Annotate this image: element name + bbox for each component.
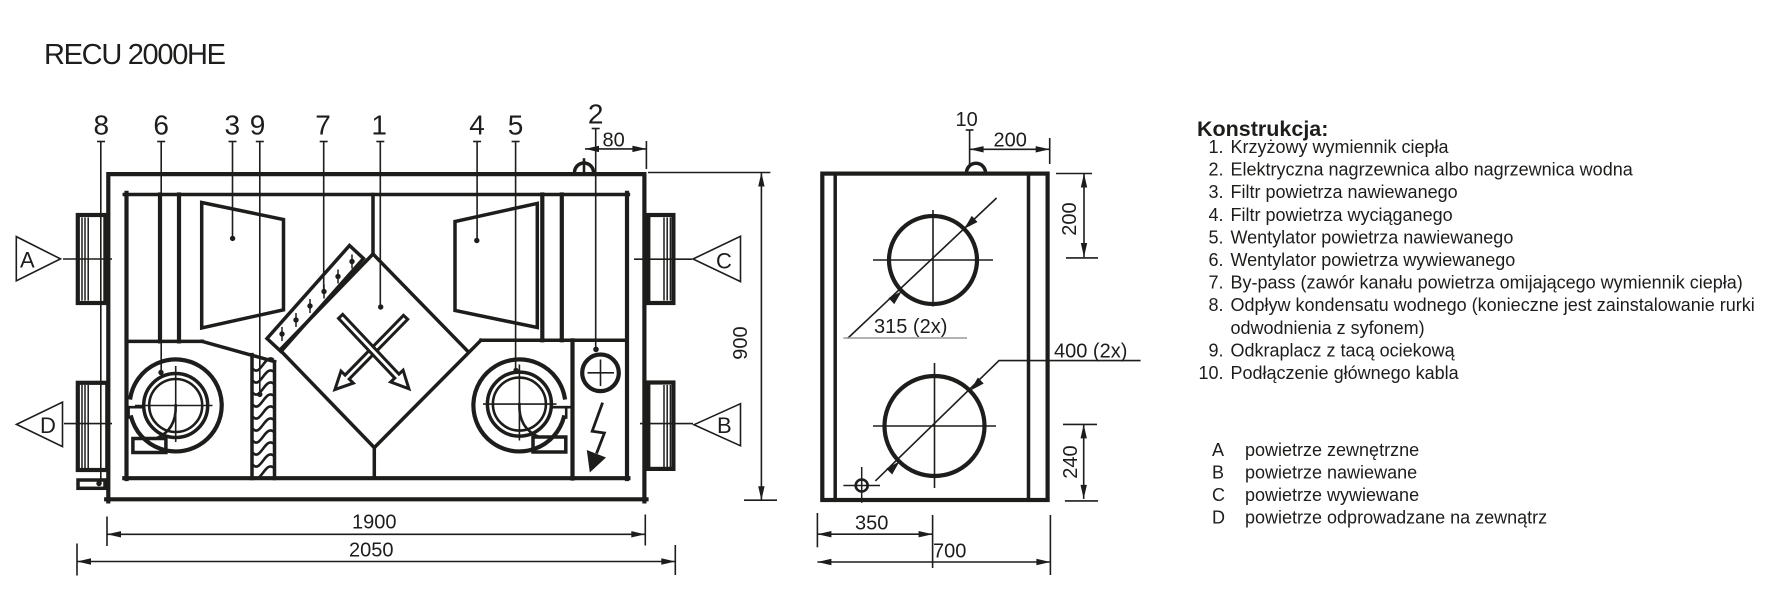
condensate drain box (item 8): [78, 480, 105, 488]
svg-text:Wentylator powietrza wywiewane: Wentylator powietrza wywiewanego: [1231, 250, 1516, 270]
svg-text:8.: 8.: [1208, 295, 1223, 315]
callout 8: [94, 110, 110, 487]
dimension 240: [1060, 424, 1098, 501]
svg-text:200: 200: [994, 130, 1027, 152]
svg-text:4.: 4.: [1208, 205, 1223, 225]
dimension 350: [817, 513, 932, 569]
svg-text:6: 6: [153, 110, 169, 141]
bypass band (item 7): [267, 246, 364, 352]
dimension 900: [648, 173, 777, 501]
diagonal to droplet separator: [202, 341, 274, 361]
divider above exchanger: [371, 195, 375, 255]
fan 6 (exhaust fan): [127, 359, 221, 452]
droplet separator strip (item 9): [252, 355, 275, 479]
svg-text:2050: 2050: [349, 540, 394, 562]
callout 1: [371, 110, 387, 310]
left fan chamber top: [127, 340, 203, 344]
svg-text:1900: 1900: [352, 512, 397, 534]
svg-text:powietrze zewnętrzne: powietrze zewnętrzne: [1245, 440, 1419, 460]
fan 5 (supply fan): [473, 359, 572, 452]
svg-text:10.: 10.: [1198, 363, 1223, 383]
dimension 2050: [77, 540, 675, 576]
port 400 bottom circle: [873, 341, 1141, 489]
right chamber top / heater chamber top: [481, 339, 627, 343]
partition wall A (left): [158, 195, 162, 342]
callout 3: [225, 110, 241, 242]
svg-text:D: D: [1212, 508, 1225, 528]
cable gland dome (front): [575, 160, 594, 173]
svg-text:1.: 1.: [1208, 137, 1223, 157]
triangle D: [17, 402, 113, 446]
dimension 700: [817, 515, 1050, 575]
svg-text:A: A: [20, 248, 35, 273]
svg-text:1: 1: [371, 110, 387, 141]
svg-text:5.: 5.: [1208, 227, 1223, 247]
cable gland dome (side, item 10): [956, 109, 986, 173]
triangle B: [640, 404, 741, 446]
dimension 1900: [107, 512, 645, 547]
partition wall B (left): [177, 195, 181, 342]
outer cabinet walls: [106, 174, 646, 501]
svg-text:B: B: [1212, 463, 1224, 483]
inner cabinet liner: [124, 193, 628, 479]
side view cabinet: [822, 174, 1047, 500]
flange C (top right duct): [648, 215, 673, 303]
electric heater (item 2): [582, 355, 619, 392]
svg-text:By-pass (zawór kanału powietrz: By-pass (zawór kanału powietrza omijając…: [1231, 273, 1743, 293]
svg-text:3.: 3.: [1208, 182, 1223, 202]
filter 4 (extract air filter): [455, 203, 537, 327]
svg-text:odwodnienia z syfonem): odwodnienia z syfonem): [1231, 318, 1425, 338]
svg-text:9: 9: [250, 110, 266, 141]
callout 6: [153, 110, 169, 376]
svg-text:7.: 7.: [1208, 273, 1223, 293]
filter 3 (supply air filter): [202, 203, 284, 329]
svg-text:Krzyżowy wymiennik ciepła: Krzyżowy wymiennik ciepła: [1231, 137, 1450, 157]
dimension 200 right: [1056, 174, 1098, 258]
svg-text:9.: 9.: [1208, 340, 1223, 360]
svg-text:powietrze odprowadzane na zewn: powietrze odprowadzane na zewnątrz: [1245, 508, 1547, 528]
svg-text:B: B: [717, 413, 732, 438]
svg-text:Podłączenie głównego kabla: Podłączenie głównego kabla: [1231, 363, 1460, 383]
svg-text:Odkraplacz z tacą ociekową: Odkraplacz z tacą ociekową: [1231, 340, 1456, 360]
svg-text:Elektryczna nagrzewnica albo n: Elektryczna nagrzewnica albo nagrzewnica…: [1231, 160, 1634, 180]
triangle C: [634, 236, 741, 281]
side drain hole: [843, 467, 880, 503]
svg-text:315 (2x): 315 (2x): [874, 316, 947, 338]
svg-text:6.: 6.: [1208, 250, 1223, 270]
svg-text:7: 7: [315, 110, 331, 141]
triangle A: [16, 237, 112, 281]
svg-text:10: 10: [956, 109, 978, 131]
svg-text:RECU 2000HE: RECU 2000HE: [44, 39, 226, 71]
flange D (bottom left duct): [78, 383, 108, 470]
callout 7: [315, 110, 331, 299]
crossed arrows in exchanger: [335, 314, 409, 389]
svg-text:240: 240: [1060, 445, 1082, 478]
heat exchanger diamond (item 1): [280, 254, 481, 478]
svg-text:3: 3: [225, 110, 241, 141]
svg-text:8: 8: [94, 110, 110, 141]
partition wall D (right): [560, 195, 564, 341]
svg-text:900: 900: [730, 326, 752, 359]
svg-text:C: C: [1212, 485, 1225, 505]
svg-text:A: A: [1212, 440, 1224, 460]
svg-text:D: D: [40, 413, 56, 438]
svg-text:200: 200: [1059, 202, 1081, 235]
dimension 200 top: [970, 130, 1050, 165]
svg-text:C: C: [716, 248, 732, 273]
svg-text:4: 4: [469, 110, 485, 141]
svg-text:5: 5: [508, 110, 524, 141]
callout 5: [508, 110, 524, 374]
svg-text:Odpływ kondensatu wodnego (kon: Odpływ kondensatu wodnego (konieczne jes…: [1231, 295, 1755, 315]
svg-text:Wentylator powietrza nawiewane: Wentylator powietrza nawiewanego: [1231, 227, 1514, 247]
callout 4: [469, 110, 485, 244]
flange A (top left duct): [78, 215, 106, 303]
svg-text:powietrze wywiewane: powietrze wywiewane: [1245, 485, 1419, 505]
svg-text:Filtr powietrza wyciąganego: Filtr powietrza wyciąganego: [1231, 205, 1453, 225]
svg-text:700: 700: [933, 541, 966, 563]
lightning bolt: [587, 403, 606, 473]
partition wall C (right): [540, 195, 544, 341]
svg-text:2.: 2.: [1208, 160, 1223, 180]
port 315 top circle: [843, 198, 996, 339]
svg-text:powietrze nawiewane: powietrze nawiewane: [1245, 463, 1417, 483]
svg-text:Filtr powietrza nawiewanego: Filtr powietrza nawiewanego: [1231, 182, 1458, 202]
flange B (bottom right duct): [648, 383, 673, 469]
heater chamber left wall: [570, 340, 574, 478]
dimension 80: [585, 130, 646, 170]
svg-text:2: 2: [588, 99, 604, 130]
svg-text:400 (2x): 400 (2x): [1054, 341, 1127, 363]
callout 2: [588, 99, 604, 353]
callout 9: [250, 110, 266, 398]
svg-text:350: 350: [855, 513, 888, 535]
